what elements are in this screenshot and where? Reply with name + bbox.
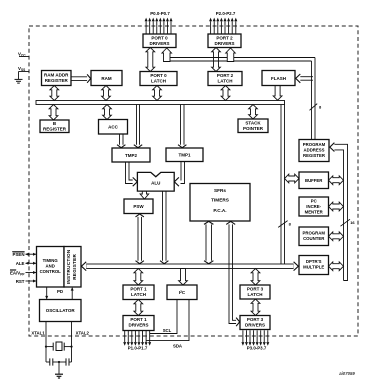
svg-text:TMP2: TMP2: [125, 153, 137, 158]
arrow PORT 0 LATCH to bus: [153, 86, 162, 101]
dptrs multiple U20: [299, 256, 329, 275]
wire: bus to TMP1: [180, 105, 182, 146]
svg-text:I2C: I2C: [179, 290, 186, 295]
svg-text:MULTIPLE: MULTIPLE: [303, 265, 324, 270]
svg-text:ALU: ALU: [151, 181, 160, 186]
arrow DPTRs MULTIPLE to 16-bit bus: [329, 262, 344, 271]
psw U14: [124, 199, 153, 214]
arrow bus to I2C: [179, 269, 188, 286]
svg-text:INSTRUCTION: INSTRUCTION: [66, 249, 71, 284]
svg-text:LATCH: LATCH: [151, 79, 166, 84]
wire: program bus horizontal redraw over arrows: [166, 57, 315, 59]
svg-text:CONTROL: CONTROL: [40, 269, 62, 274]
wire: RAM ADDR REGISTER to RAM: [71, 76, 88, 78]
port 3 latch U26: [240, 285, 270, 299]
bus width slash 16: [341, 219, 351, 226]
port 2 latch U6: [208, 72, 242, 86]
arrow FLASH to bus: [273, 86, 282, 101]
arrow bus to ACC: [103, 105, 112, 120]
wire: TMP2 to ALU: [126, 162, 134, 184]
svg-text:ALE: ALE: [16, 261, 25, 266]
svg-text:DRIVERS: DRIVERS: [149, 41, 169, 46]
svg-text:DRIVERS: DRIVERS: [245, 323, 265, 328]
program counter U19: [299, 227, 329, 246]
buffer U17: [299, 172, 329, 189]
wire: timing control to oscillator (PD): [46, 287, 48, 299]
wire: XTAL1: [45, 322, 47, 363]
svg-text:PSW: PSW: [133, 204, 144, 209]
svg-text:REGISTER: REGISTER: [303, 153, 326, 158]
flash U7: [262, 71, 295, 86]
oscillator U23: [40, 300, 82, 322]
svg-text:P2.0-P2.7: P2.0-P2.7: [216, 11, 236, 16]
wire: flash feed lines with arrowheads into FLASH: [300, 76, 314, 78]
timing and control U21: [37, 247, 65, 288]
arrow RAM to bus: [102, 86, 111, 101]
arrow vertical bus to BUFFER: [285, 174, 300, 183]
arrow PORT 2 LATCH to bus: [221, 86, 230, 101]
wire: RST signal: [26, 280, 37, 282]
wire: SCL from I2C to P1 pin: [150, 300, 177, 334]
stack pointer U10: [238, 119, 268, 133]
arrow PC INCREMENTER to 16-bit bus: [329, 202, 344, 211]
wire: SFRs through bus to PORT 3 DRIVERS: [229, 224, 236, 324]
svg-text:REGISTER: REGISTER: [45, 78, 69, 83]
port 0 latch U5: [140, 72, 177, 86]
arrow PORT 0 DRIVERS to LATCH: [146, 48, 155, 72]
arrow PORT 2 DRIVERS to LATCH: [212, 48, 221, 72]
svg-text:RAM ADDR: RAM ADDR: [44, 73, 69, 78]
svg-text:RAM: RAM: [101, 76, 111, 81]
ram addr register U3: [42, 71, 72, 86]
pins P2.0-P2.7: [210, 21, 212, 34]
svg-text:AND: AND: [46, 264, 55, 269]
wire: ALU to lower bus: [162, 191, 164, 261]
svg-text:MENTER: MENTER: [305, 210, 324, 215]
ground (VSS): [15, 78, 23, 80]
sfrs timers pca U15: [190, 184, 250, 222]
arrow ALU to PSW: [140, 191, 149, 199]
wire: oscillator to instruction register: [71, 288, 73, 300]
ground (crystal): [58, 362, 60, 374]
wire: main internal bus (lower): [86, 264, 294, 269]
wire: XTAL2: [71, 322, 73, 363]
svg-text:16: 16: [350, 220, 355, 225]
svg-text:ACC: ACC: [108, 125, 118, 130]
pc incrementer U18: [299, 197, 329, 216]
svg-text:PORT 3: PORT 3: [247, 287, 264, 292]
svg-text:ai07059: ai07059: [339, 371, 355, 376]
svg-text:P.C.A.: P.C.A.: [213, 208, 226, 213]
svg-text:TIMERS: TIMERS: [211, 197, 229, 202]
bus width slash 8 (vertical bus): [278, 221, 287, 228]
label PSEN overline: [12, 251, 24, 253]
pins P0.0-P0.7: [145, 21, 147, 34]
arrow program bus up to PORT 0 DRIVERS: [162, 48, 172, 62]
svg-text:PORT 2: PORT 2: [217, 73, 234, 78]
wire: bus to TMP2: [136, 105, 138, 146]
wire: 16-bit internal bus (right): [334, 144, 348, 280]
svg-text:DRIVERS: DRIVERS: [128, 323, 148, 328]
svg-text:LATCH: LATCH: [131, 292, 146, 297]
port 1 drivers U27: [123, 316, 154, 331]
svg-text:PORT 0: PORT 0: [150, 73, 167, 78]
wire: ACC to TMP2: [119, 134, 121, 145]
svg-text:PORT 0: PORT 0: [151, 36, 168, 41]
svg-text:REGISTER: REGISTER: [72, 253, 77, 279]
svg-text:P1.0-P1.7: P1.0-P1.7: [128, 345, 148, 350]
wire: EA/VPP signal: [26, 272, 37, 274]
arrow bus to STACK POINTER: [249, 105, 258, 120]
svg-text:PORT 3: PORT 3: [247, 317, 264, 322]
acc U9: [99, 120, 128, 135]
svg-text:REGISTER: REGISTER: [43, 127, 67, 132]
pins P1.0-P1.7: [124, 330, 126, 342]
arrow bus to B REGISTER: [49, 105, 58, 121]
wire: vertical bus between main buses: [281, 102, 285, 267]
svg-text:P0.0-P0.7: P0.0-P0.7: [150, 11, 170, 16]
svg-text:PORT 1: PORT 1: [130, 317, 147, 322]
ram U4: [91, 71, 122, 86]
node: capacitor junction: [58, 361, 60, 363]
svg-text:DRIVERS: DRIVERS: [214, 41, 234, 46]
wire: program address bus (drivers to PAR), horizontal pair: [166, 57, 315, 59]
arrow program bus up to PORT 2 DRIVERS: [226, 48, 236, 62]
wire: ALE signal: [26, 262, 37, 264]
arrow bus to PORT 1 LATCH: [134, 269, 143, 286]
node: crystal junctions: [45, 346, 47, 348]
svg-text:PROGRAM: PROGRAM: [303, 142, 326, 147]
svg-text:SCL: SCL: [163, 328, 172, 333]
bus width slash 8 (program bus): [310, 104, 318, 111]
i2c U25: [167, 285, 197, 300]
port 3 drivers U28: [240, 316, 270, 330]
arrow PORT 1 LATCH to DRIVERS: [134, 300, 143, 316]
svg-text:LATCH: LATCH: [248, 292, 263, 297]
svg-text:XTAL1: XTAL1: [31, 330, 45, 335]
svg-text:RST: RST: [16, 279, 25, 284]
capacitor C2: [53, 361, 66, 363]
instruction register U22: [64, 247, 81, 288]
pins P3.0-P3.7: [242, 330, 244, 342]
crystal Y1: [52, 343, 54, 351]
b register U8: [40, 120, 69, 133]
node VCC: [19, 56, 30, 58]
svg-text:DPTR'S: DPTR'S: [306, 259, 322, 264]
svg-text:PORT 2: PORT 2: [216, 36, 233, 41]
tmp2 U11: [112, 148, 150, 162]
wire: TMP1 to ALU: [181, 162, 185, 184]
port 2 drivers U2: [208, 34, 241, 48]
alu U13: [137, 172, 174, 191]
arrow RAM ADDR REGISTER to bus: [50, 86, 59, 101]
svg-text:PSEN: PSEN: [13, 252, 25, 257]
svg-text:PORT 1: PORT 1: [130, 287, 147, 292]
svg-text:TIMING: TIMING: [43, 258, 59, 263]
svg-text:PD: PD: [57, 289, 63, 294]
svg-text:SDA: SDA: [173, 344, 182, 349]
port 1 latch U24: [123, 285, 154, 300]
svg-text:ADDRESS: ADDRESS: [303, 148, 324, 153]
svg-text:XTAL2: XTAL2: [76, 330, 90, 335]
svg-text:STACK: STACK: [245, 121, 261, 126]
svg-text:LATCH: LATCH: [218, 79, 233, 84]
wire: PSW to lower bus: [137, 216, 139, 261]
node VSS: [19, 71, 30, 73]
program address register U16: [299, 140, 329, 162]
arrow PROGRAM COUNTER to 16-bit bus: [329, 232, 344, 241]
port 0 drivers U1: [143, 34, 176, 48]
capacitor C1: [46, 361, 50, 363]
svg-text:PC: PC: [311, 199, 317, 204]
svg-text:PROGRAM: PROGRAM: [302, 231, 325, 236]
arrow bus to PORT 3 LATCH: [251, 269, 260, 286]
chip boundary (dashed): [29, 26, 358, 336]
wire: SFRs to lower bus: [205, 224, 207, 261]
arrow PORT 3 LATCH to DRIVERS: [251, 299, 260, 316]
tmp1 U12: [166, 148, 203, 162]
svg-text:SFRs: SFRs: [214, 188, 226, 193]
svg-text:FLASH: FLASH: [271, 76, 286, 81]
svg-text:BUFFER: BUFFER: [305, 178, 323, 183]
svg-text:TMP1: TMP1: [178, 153, 190, 158]
label EA overline: [10, 269, 16, 271]
open arrowhead into DPTRs multiple: [294, 262, 299, 271]
svg-text:OSCILLATOR: OSCILLATOR: [46, 308, 76, 313]
svg-text:POINTER: POINTER: [243, 126, 264, 131]
svg-text:COUNTER: COUNTER: [303, 236, 325, 241]
svg-text:INCRE-: INCRE-: [306, 204, 321, 209]
wire: PSEN signal: [26, 253, 37, 255]
wire: SDA from I2C to P1 pin: [146, 300, 189, 341]
arrow BUFFER to 16-bit bus: [329, 176, 344, 185]
wire: main internal bus (upper): [36, 101, 285, 105]
svg-text:P3.0-P3.7: P3.0-P3.7: [247, 345, 267, 350]
